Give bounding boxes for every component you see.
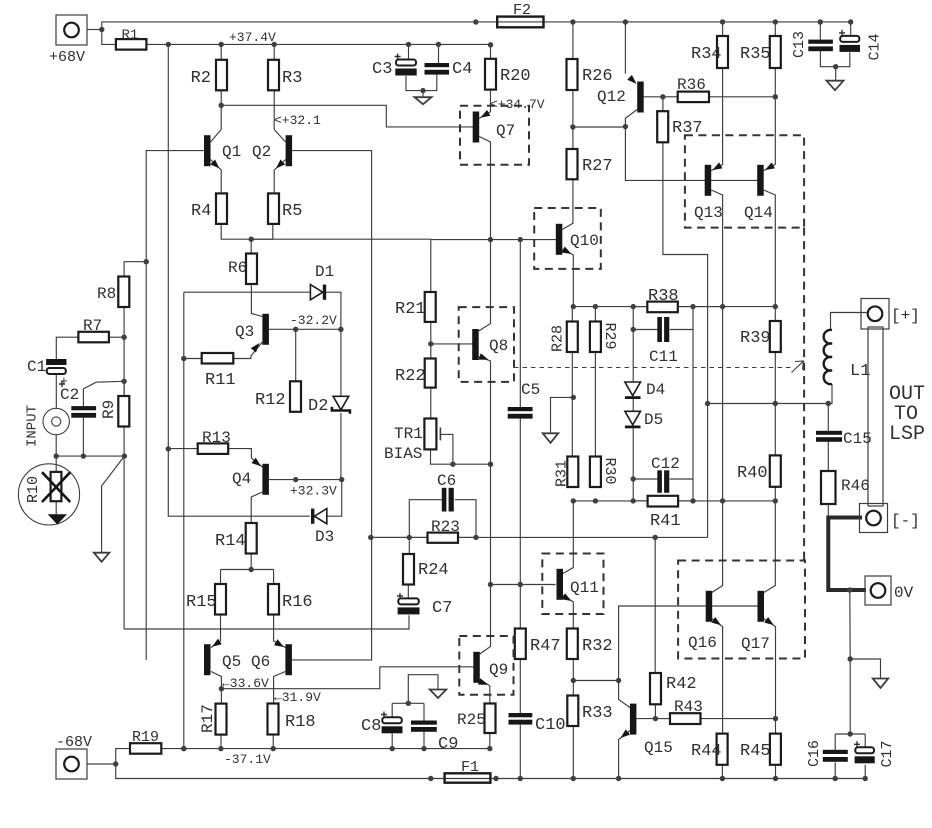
svg-text:R32: R32 xyxy=(582,637,613,656)
resistor R18 xyxy=(268,704,279,735)
wire C8 top lead xyxy=(391,703,393,717)
wire input line to D3 xyxy=(168,449,309,516)
wire jack to R10 xyxy=(55,435,57,472)
wire R24 bottom to C7 xyxy=(407,584,409,598)
resistor R8 xyxy=(118,277,129,308)
wire Q13 Q14 base link xyxy=(711,179,758,181)
resistor R11 xyxy=(202,353,234,364)
capacitor C2 xyxy=(71,406,96,410)
wire R28 bottom to R31 xyxy=(571,352,573,457)
wire R29 bottom to R30 xyxy=(594,352,596,457)
diode D1 xyxy=(310,285,322,300)
svg-text:F2: F2 xyxy=(513,2,531,19)
wire C6 right jog xyxy=(455,500,476,538)
dashed box Q8 xyxy=(459,307,514,382)
transistor Q8 xyxy=(472,329,479,360)
svg-text:C17: C17 xyxy=(879,740,896,767)
wire x490 down to Q8 collector xyxy=(479,240,491,331)
wire R47 bottom to C10 xyxy=(519,659,521,714)
diode D3 xyxy=(314,509,326,524)
junction dots top bus xyxy=(99,19,853,32)
svg-text:R31: R31 xyxy=(554,460,571,487)
wire R36 left lead xyxy=(663,96,678,98)
resistor R7 xyxy=(78,332,109,343)
fuse F1 xyxy=(445,773,491,782)
inductor L1 xyxy=(824,330,832,384)
svg-text:R11: R11 xyxy=(205,371,236,390)
wire R18 bottom xyxy=(272,735,274,749)
svg-text:R9: R9 xyxy=(100,400,118,419)
junction dots y537 feedback xyxy=(368,535,658,540)
wire R8 top jog xyxy=(124,262,146,277)
wire R44 bottom xyxy=(721,765,723,779)
junction dot gnd mid xyxy=(571,395,576,400)
junction dot y569 xyxy=(249,567,254,572)
junction dots y127 xyxy=(570,124,628,130)
junction dot Q5 R17 xyxy=(219,686,224,691)
svg-text:C15: C15 xyxy=(843,430,872,448)
junction dots y307 xyxy=(571,304,778,309)
wire R26 top lead xyxy=(572,22,574,59)
wire C15 top lead xyxy=(827,404,829,431)
ground output right xyxy=(873,679,889,689)
wire R37 top lead xyxy=(662,97,664,111)
wire R43 right to R45 xyxy=(701,718,776,720)
wire C8 bottom xyxy=(391,734,393,749)
transistor Q13 xyxy=(705,165,712,196)
resistor R9 xyxy=(118,396,129,427)
svg-text:R45: R45 xyxy=(740,742,771,761)
wire R33 bottom xyxy=(572,726,574,779)
svg-text:Q3: Q3 xyxy=(235,323,254,341)
svg-text:F1: F1 xyxy=(461,759,479,776)
wire R6 top lead xyxy=(250,239,252,253)
capacitor C15 xyxy=(816,431,842,435)
resistor R20 xyxy=(485,59,496,90)
junction dots Q11 base xyxy=(488,582,523,587)
wire input gnd net y456 xyxy=(56,455,124,457)
wire C16 bottom xyxy=(834,762,836,778)
wire R13 to Q4 emitter xyxy=(228,449,262,467)
wire C1 bottom to jack xyxy=(55,374,57,409)
svg-text:C8: C8 xyxy=(361,717,381,736)
transistor Q1 xyxy=(204,135,211,166)
wire -68V to R19 xyxy=(116,749,130,764)
svg-text:Q9: Q9 xyxy=(489,661,508,679)
wire Q7 collector chain xyxy=(479,137,490,240)
wire C8C9 gnd jog xyxy=(408,675,438,704)
svg-text:R40: R40 xyxy=(737,464,768,483)
junction dots +37 rail xyxy=(166,42,494,48)
wire Q12 base wire xyxy=(644,96,663,98)
wire R14 bottom xyxy=(250,554,252,570)
wire Q3 emitter to R11 xyxy=(233,342,262,359)
wire input line R1 to R13 xyxy=(167,44,169,449)
wire x618 up to Q16 base xyxy=(619,606,706,681)
wire R35 top lead xyxy=(774,22,776,36)
wire R12 top lead xyxy=(295,329,297,381)
wire R41 jog xyxy=(633,500,647,502)
wire output rail y403 xyxy=(708,403,829,405)
svg-text:[-]: [-] xyxy=(891,512,920,530)
fuse F2 xyxy=(497,17,543,28)
wire R7 left to C1 xyxy=(56,337,78,359)
wire D1 cathode to Q3 base node xyxy=(326,292,341,329)
resistor R41 xyxy=(648,496,679,507)
diode D4 xyxy=(625,382,641,396)
junction dots y501 xyxy=(571,498,778,503)
wire C14 top lead xyxy=(850,22,852,36)
svg-text:R12: R12 xyxy=(255,391,286,410)
junction dots output rail xyxy=(705,401,831,406)
svg-text:R17: R17 xyxy=(199,704,217,733)
svg-text:R15: R15 xyxy=(186,593,217,612)
svg-text:R27: R27 xyxy=(582,157,613,176)
wire C3 top lead xyxy=(408,44,410,59)
svg-text:C16: C16 xyxy=(806,740,823,767)
svg-text:←33.6V: ←33.6V xyxy=(222,676,269,691)
wire Q4 base xyxy=(269,479,342,481)
wire output to feedback jog xyxy=(655,536,707,538)
svg-text:R5: R5 xyxy=(282,202,302,221)
svg-text:BIAS: BIAS xyxy=(384,445,422,463)
wire Q11 emitter to R32 xyxy=(563,596,573,629)
svg-text:<+32.1: <+32.1 xyxy=(274,113,321,128)
svg-text:R2: R2 xyxy=(191,69,211,88)
trimmer TR1 xyxy=(424,419,436,450)
svg-text:D3: D3 xyxy=(315,528,334,546)
wire R2 bottom to Q1 collector xyxy=(220,90,222,129)
svg-text:Q4: Q4 xyxy=(232,470,251,488)
wire D4 D5 mid xyxy=(632,398,634,411)
transistor Q14 xyxy=(757,165,764,196)
wire R25 bottom xyxy=(489,733,491,749)
resistor R3 xyxy=(268,60,279,91)
resistor R33 xyxy=(567,696,578,727)
svg-text:+: + xyxy=(60,374,68,389)
junction dots Q3 base xyxy=(293,327,636,333)
wire C12 right plate wire xyxy=(670,478,693,480)
svg-text:D5: D5 xyxy=(644,411,663,429)
wire x520 C5 chain xyxy=(519,240,521,407)
capacitor C14 xyxy=(840,36,859,42)
svg-text:R4: R4 xyxy=(191,202,211,221)
wire R5 bottom tail xyxy=(272,225,274,239)
transistor Q15 xyxy=(630,704,637,735)
svg-text:R3: R3 xyxy=(282,69,302,88)
wire R27 bottom to Q10 collector xyxy=(562,179,573,229)
resistor R39 xyxy=(770,321,781,352)
svg-text:C6: C6 xyxy=(437,472,456,490)
capacitor C1 xyxy=(46,359,66,365)
transistor Q11 xyxy=(557,569,564,600)
wire R16 top lead xyxy=(273,570,275,585)
resistor R10 optional crossed xyxy=(18,464,79,525)
wire Q9 emitter to R25 xyxy=(480,679,490,704)
svg-text:Q10: Q10 xyxy=(570,232,599,250)
svg-text:C12: C12 xyxy=(651,455,680,473)
wire C17 bottom xyxy=(864,765,866,779)
wire R4 bottom tail xyxy=(221,225,273,239)
junction dot R2 node xyxy=(219,103,224,108)
transistor Q16 xyxy=(706,591,713,622)
svg-text:0V: 0V xyxy=(894,584,914,602)
wire gnd jog right xyxy=(850,659,880,679)
dashed box Q13 Q14 xyxy=(685,135,804,227)
wire R10 bottom stub xyxy=(55,501,57,515)
capacitor C10 xyxy=(509,713,533,717)
resistor R47 xyxy=(515,629,526,660)
wire R40 top lead xyxy=(774,404,776,456)
svg-text:R28: R28 xyxy=(550,325,567,352)
wire +68V top bus xyxy=(102,22,851,30)
svg-text:R25: R25 xyxy=(457,711,486,729)
capacitor C12 xyxy=(657,470,662,493)
svg-text:R44: R44 xyxy=(691,742,722,761)
wire R39 bottom to output xyxy=(774,352,776,404)
svg-text:R1: R1 xyxy=(122,28,139,44)
wire thick output to minus terminal xyxy=(828,518,866,591)
svg-text:-32.2V: -32.2V xyxy=(290,313,337,328)
wire x655 to R42 xyxy=(654,537,656,673)
wire Q15 base wire xyxy=(636,718,655,720)
wire y680 link xyxy=(573,680,618,682)
svg-text:Q7: Q7 xyxy=(496,122,515,140)
wire R17 bottom xyxy=(220,735,222,749)
capacitor C5 xyxy=(508,407,533,411)
ground C8 C9 xyxy=(430,690,447,699)
wire C10 bottom xyxy=(519,725,521,779)
svg-text:-37.1V: -37.1V xyxy=(224,752,271,767)
wire R38 right lead xyxy=(678,306,722,308)
junction dots input gnd xyxy=(54,453,128,458)
wire R23 left jog xyxy=(371,536,428,538)
svg-text:R36: R36 xyxy=(677,76,706,94)
resistor R4 xyxy=(216,193,227,224)
wire R16 bottom to Q6 emitter xyxy=(274,614,286,647)
transistor Q5 xyxy=(204,644,211,675)
resistor R19 xyxy=(130,743,161,754)
wire y127 to Q12 collector xyxy=(573,126,626,128)
wire TR1 bottom xyxy=(431,449,491,464)
wire Q5 node to Q9 base xyxy=(221,667,473,689)
wire gnd jog mid xyxy=(551,397,574,433)
capacitor C4 xyxy=(425,63,450,67)
input jack xyxy=(43,408,69,434)
wire R36 right lead xyxy=(709,96,775,98)
capacitor C3 xyxy=(396,60,416,66)
resistor R44 xyxy=(717,734,728,765)
svg-text:R22: R22 xyxy=(395,367,426,386)
svg-text:C13: C13 xyxy=(791,31,808,58)
svg-text:R7: R7 xyxy=(83,317,102,335)
wire C2 top jog xyxy=(83,381,124,406)
wire R42 bottom lead xyxy=(654,704,656,718)
svg-text:R24: R24 xyxy=(418,561,449,580)
dashed box Q16 Q17 xyxy=(678,561,805,659)
svg-text:Q12: Q12 xyxy=(597,88,626,106)
svg-text:D2: D2 xyxy=(308,397,328,416)
wire C17 top lead xyxy=(864,734,866,747)
junction dots tail xyxy=(249,237,524,243)
svg-text:+37.4V: +37.4V xyxy=(229,30,276,45)
transistor Q9 xyxy=(473,652,480,683)
wire Q16 Q17 base link xyxy=(712,605,757,607)
wire R28 chain xyxy=(571,307,573,322)
junction dots R11 R19 xyxy=(181,356,186,752)
svg-text:R6: R6 xyxy=(228,259,247,277)
resistor R34 xyxy=(717,36,728,68)
resistor R45 xyxy=(770,734,781,765)
svg-text:Q1: Q1 xyxy=(222,143,241,161)
junction dot C12 left xyxy=(631,476,636,481)
wire D4 D5 string xyxy=(632,330,634,383)
diode D2 xyxy=(333,396,349,410)
svg-text:R35: R35 xyxy=(740,45,771,64)
capacitor C8 xyxy=(382,717,402,723)
svg-text:R26: R26 xyxy=(582,67,613,86)
wire y239 to Q10 base xyxy=(431,239,556,241)
ground R10 xyxy=(49,515,66,524)
wire x124 R8 chain xyxy=(123,307,125,630)
wire C8 C9 top net xyxy=(392,702,424,704)
svg-text:R38: R38 xyxy=(648,287,679,306)
resistor R13 xyxy=(198,443,229,454)
dashed heatsink line xyxy=(803,228,805,561)
junction dots TR1 xyxy=(450,462,493,467)
svg-text:Q17: Q17 xyxy=(741,635,770,653)
svg-text:Q15: Q15 xyxy=(644,739,673,757)
wire Q5 collector to R17 xyxy=(211,672,221,704)
wire y501 rail xyxy=(572,500,775,502)
wire +37.4V rail xyxy=(146,43,490,45)
svg-text:R47: R47 xyxy=(530,637,561,656)
resistor R32 xyxy=(567,629,578,660)
wire C11 right plate wire xyxy=(670,329,693,331)
transistor Q10 xyxy=(556,224,563,255)
resistor R42 xyxy=(650,673,661,704)
wire Q14 collector xyxy=(764,190,776,307)
resistor R23 xyxy=(428,533,459,543)
wire x184 line xyxy=(183,292,185,748)
wire tail to R21 and Q10 base xyxy=(251,239,431,292)
ground C13 C14 xyxy=(827,81,844,91)
resistor R35 xyxy=(770,36,781,68)
resistor R36 xyxy=(678,92,709,103)
svg-text:Q14: Q14 xyxy=(744,204,773,222)
ground C3 C4 xyxy=(415,97,432,104)
svg-text:C11: C11 xyxy=(649,348,678,366)
resistor R28 xyxy=(567,322,578,353)
resistor R27 xyxy=(567,149,578,179)
wire Q2 base line xyxy=(292,151,372,660)
junction dots y748 xyxy=(113,746,492,767)
wire R26 R27 junction xyxy=(572,90,574,149)
resistor R5 xyxy=(268,193,279,224)
wire R20 bottom to Q7 emitter xyxy=(479,90,490,119)
svg-text:C4: C4 xyxy=(452,60,472,79)
svg-text:+68V: +68V xyxy=(49,49,85,66)
resistor R40 xyxy=(770,455,781,486)
wire input gnd diagonal xyxy=(102,456,125,553)
resistor R29 xyxy=(590,322,601,353)
dashed box Q7 xyxy=(460,106,529,165)
wire Q6 collector to R18 xyxy=(274,672,286,704)
svg-text:INPUT: INPUT xyxy=(25,405,41,447)
svg-text:R10: R10 xyxy=(25,476,42,503)
svg-text:←31.9V: ←31.9V xyxy=(274,690,321,705)
svg-text:R23: R23 xyxy=(431,518,460,536)
svg-text:C5: C5 xyxy=(521,381,540,399)
svg-text:R34: R34 xyxy=(691,45,722,64)
wire L1 top lead xyxy=(831,313,867,331)
svg-text:R29: R29 xyxy=(601,323,618,350)
wire R1 input drop xyxy=(102,30,116,45)
svg-text:R46: R46 xyxy=(841,477,870,495)
svg-text:C7: C7 xyxy=(432,599,452,618)
wire R23 right jog xyxy=(458,536,476,538)
junction dot Q8 base xyxy=(428,341,433,346)
wire R34 top lead xyxy=(722,22,724,36)
wire Q16 emitter to R44 xyxy=(712,619,723,734)
wire feedback long y537 xyxy=(371,536,655,538)
wire ground stub C3C4 xyxy=(422,91,424,98)
svg-text:R33: R33 xyxy=(582,704,613,723)
junction dots 0V line xyxy=(847,587,853,736)
wire R9 chain xyxy=(123,381,125,396)
wire C11 left lead xyxy=(632,307,634,330)
svg-text:D4: D4 xyxy=(646,381,665,399)
svg-text:Q16: Q16 xyxy=(688,634,717,652)
svg-text:<+34.7V: <+34.7V xyxy=(490,97,545,112)
ground input xyxy=(94,553,110,562)
wire Q1 base line xyxy=(146,151,204,660)
wire R37 bottom jog xyxy=(663,142,708,537)
wire R43 left lead xyxy=(655,718,670,720)
svg-text:R42: R42 xyxy=(666,675,697,694)
svg-text:C9: C9 xyxy=(438,735,458,754)
resistor R21 xyxy=(425,292,436,322)
wire C16 top lead xyxy=(834,734,836,750)
svg-text:TR1: TR1 xyxy=(394,425,423,443)
wire Q17 emitter to R45 xyxy=(764,619,776,734)
transistor Q2 xyxy=(286,135,293,166)
terminal 0V xyxy=(865,576,891,605)
resistor R25 xyxy=(485,704,496,734)
wire R6 bottom to Q3 collector xyxy=(251,284,262,317)
wire R22 bottom to TR1 xyxy=(430,388,432,419)
svg-text:Q5: Q5 xyxy=(222,653,241,671)
wire C14 bottom lead xyxy=(836,52,850,66)
wire R2 node to Q7 base xyxy=(221,105,474,127)
wire R19 wire y748 xyxy=(161,748,490,750)
capacitor C11 xyxy=(657,317,662,342)
wire Q10 emitter chain xyxy=(562,249,573,307)
svg-text:C10: C10 xyxy=(535,716,566,735)
wire C16 C17 top net xyxy=(835,733,865,735)
svg-text:R18: R18 xyxy=(285,713,316,732)
resistor R2 xyxy=(216,60,227,91)
svg-text:C14: C14 xyxy=(867,33,884,60)
svg-text:R16: R16 xyxy=(282,593,313,612)
wire R20 top lead xyxy=(490,44,492,58)
wire Q8 base wire xyxy=(431,343,475,345)
diode D5 xyxy=(625,411,641,425)
resistor R17 xyxy=(216,704,227,735)
svg-text:Q2: Q2 xyxy=(252,143,271,161)
svg-text:R14: R14 xyxy=(215,532,246,551)
wire R45 bottom xyxy=(775,765,777,779)
